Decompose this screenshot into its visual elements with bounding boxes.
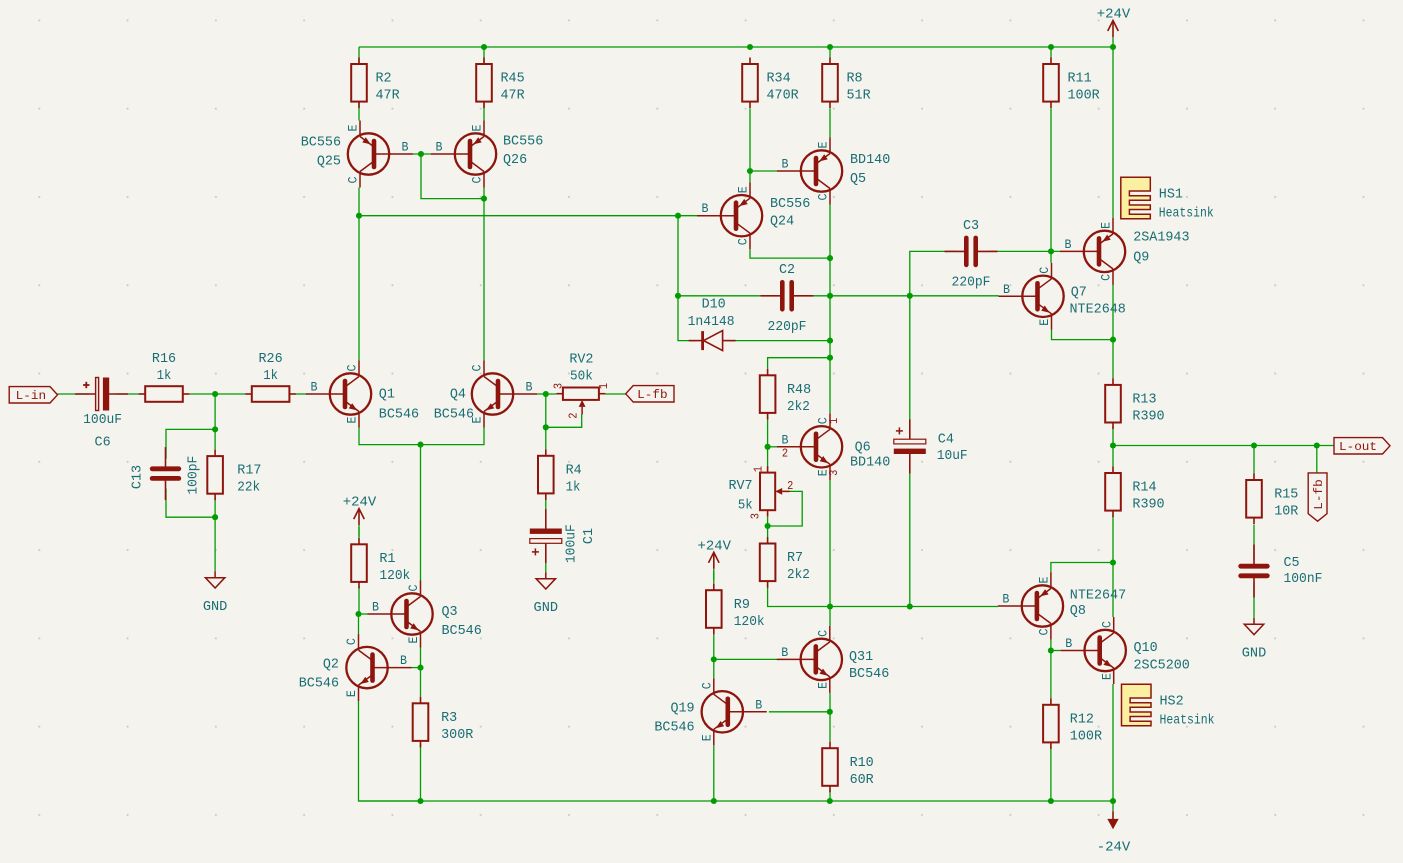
resistor R12 — [1043, 698, 1102, 749]
wire — [420, 445, 422, 581]
svg-text:BC546: BC546 — [434, 407, 474, 423]
transistor Q6 BD140 — [777, 413, 890, 480]
svg-text:B: B — [755, 698, 762, 712]
svg-text:-24V: -24V — [1097, 840, 1131, 856]
resistor R10 — [822, 742, 874, 793]
svg-text:220pF: 220pF — [952, 274, 991, 290]
svg-text:+24V: +24V — [1097, 7, 1131, 23]
svg-text:Q24: Q24 — [770, 214, 794, 230]
wire — [545, 549, 547, 572]
svg-text:B: B — [400, 654, 407, 668]
svg-text:B: B — [1002, 593, 1009, 607]
wire — [214, 498, 216, 571]
svg-text:R390: R390 — [1132, 409, 1164, 425]
wire — [1051, 650, 1061, 652]
wire — [768, 446, 778, 448]
svg-text:100R: 100R — [1070, 728, 1103, 744]
svg-text:C: C — [347, 177, 361, 184]
resistor R14 — [1105, 467, 1164, 518]
wire — [910, 295, 999, 297]
junction node Q8.C/Q10.B/R12 — [1048, 647, 1054, 653]
wire — [800, 295, 909, 297]
svg-text:22k: 22k — [237, 480, 260, 496]
resistor R15 — [1246, 474, 1299, 525]
transistor Q9 2SA1943 — [1060, 218, 1190, 285]
svg-text:L-fb: L-fb — [1312, 479, 1326, 509]
svg-text:Q4: Q4 — [450, 387, 466, 403]
wire — [1050, 651, 1052, 699]
svg-text:BC556: BC556 — [503, 134, 543, 150]
svg-text:Q1: Q1 — [379, 387, 395, 403]
svg-text:R13: R13 — [1132, 392, 1156, 408]
capacitor C1 — [530, 509, 597, 563]
wire — [829, 205, 831, 414]
junction node bottom rail / R3 — [417, 798, 423, 804]
svg-text:E: E — [1038, 577, 1052, 584]
wire — [713, 631, 715, 659]
junction node C3 right / Q9.B — [1048, 248, 1054, 254]
wire — [358, 586, 360, 614]
svg-text:3: 3 — [749, 513, 763, 519]
svg-text:R2: R2 — [376, 71, 392, 87]
svg-text:Q26: Q26 — [503, 152, 527, 168]
svg-text:BC546: BC546 — [299, 676, 339, 692]
svg-text:C: C — [737, 238, 751, 245]
transistor Q31 BC546 — [777, 626, 889, 693]
svg-text:2SC5200: 2SC5200 — [1134, 658, 1190, 674]
svg-text:120k: 120k — [379, 568, 410, 584]
junction node Q26.C — [481, 196, 487, 202]
wire — [605, 393, 625, 395]
wire — [750, 249, 830, 258]
svg-text:R48: R48 — [787, 382, 811, 398]
svg-text:BC546: BC546 — [379, 407, 419, 423]
svg-text:R45: R45 — [501, 71, 525, 87]
svg-text:100uF: 100uF — [563, 524, 579, 563]
junction node RV2 wiper — [543, 424, 549, 430]
svg-text:R9: R9 — [734, 597, 750, 613]
junction node top rail / R45 — [481, 44, 487, 50]
wire — [546, 414, 582, 427]
wire — [359, 428, 421, 445]
junction node Q5.B — [747, 168, 753, 174]
wire — [545, 394, 547, 449]
svg-text:120k: 120k — [734, 614, 765, 630]
svg-text:C: C — [816, 630, 830, 637]
svg-text:R17: R17 — [237, 463, 261, 479]
wire — [1112, 426, 1114, 466]
svg-text:E: E — [1100, 222, 1114, 229]
svg-text:B: B — [781, 646, 788, 660]
svg-text:3: 3 — [551, 383, 565, 389]
svg-text:C6: C6 — [95, 435, 111, 451]
svg-text:E: E — [471, 125, 485, 132]
svg-text:L-in: L-in — [16, 389, 46, 403]
svg-text:2: 2 — [787, 479, 793, 493]
junction node R48 tap — [827, 355, 833, 361]
wire — [189, 393, 246, 395]
junction node C3/C4/Q7.B — [907, 293, 913, 299]
junction node R1/Q3.B/Q2.C — [355, 611, 361, 617]
wire — [1253, 446, 1255, 474]
junction node R9/Q31.B/Q19.C — [711, 656, 717, 662]
wire — [749, 108, 751, 182]
svg-text:C: C — [407, 585, 421, 592]
svg-text:Q3: Q3 — [442, 604, 458, 620]
wire — [767, 517, 769, 537]
wire — [768, 358, 830, 369]
svg-text:R14: R14 — [1132, 480, 1156, 496]
wire — [1112, 684, 1114, 801]
transistor Q2 BC546 — [299, 634, 412, 701]
junction node D10 — [827, 338, 833, 344]
potentiometer RV2 — [551, 351, 611, 418]
svg-text:+24V: +24V — [343, 495, 377, 511]
wire — [829, 693, 831, 712]
resistor R8 — [822, 58, 871, 109]
junction node bottom rail / R10 — [827, 798, 833, 804]
heatsink HS1 — [1121, 177, 1214, 222]
svg-text:C2: C2 — [779, 262, 795, 278]
svg-text:C: C — [346, 365, 360, 372]
wire — [58, 393, 90, 395]
transistor Q8 NTE2647 — [998, 573, 1126, 640]
wire — [421, 428, 485, 445]
resistor R48 — [760, 369, 811, 420]
wire — [769, 711, 830, 713]
svg-text:BC556: BC556 — [301, 135, 341, 151]
svg-text:60R: 60R — [850, 772, 875, 788]
junction node Q24.C — [827, 255, 833, 261]
heatsink HS2 — [1122, 684, 1215, 729]
svg-text:B: B — [1003, 283, 1010, 297]
wire — [1050, 640, 1052, 651]
svg-text:Q5: Q5 — [850, 171, 866, 187]
svg-text:R1: R1 — [379, 551, 395, 567]
junction node top rail / R34 — [747, 44, 753, 50]
svg-text:E: E — [737, 186, 751, 193]
wire — [1112, 47, 1114, 218]
svg-text:1k: 1k — [263, 368, 278, 384]
svg-text:E: E — [345, 690, 359, 697]
wire — [358, 47, 360, 121]
ground — [534, 572, 559, 616]
junction node bottom rail / -24V — [1110, 798, 1116, 804]
wire — [412, 667, 421, 669]
wire — [1112, 516, 1114, 617]
wire — [359, 215, 678, 217]
wire — [358, 527, 360, 538]
svg-text:2k2: 2k2 — [787, 399, 810, 415]
transistor Q3 BC546 — [368, 581, 482, 648]
resistor R17 — [207, 450, 261, 501]
svg-text:RV7: RV7 — [728, 478, 752, 494]
svg-text:C: C — [700, 682, 714, 689]
wire — [296, 393, 307, 395]
svg-text:GND: GND — [534, 600, 559, 616]
svg-text:B: B — [311, 381, 318, 395]
wire — [116, 393, 139, 395]
svg-text:10uF: 10uF — [937, 448, 968, 464]
svg-text:GND: GND — [203, 599, 228, 615]
junction node L-fb tap — [1314, 442, 1320, 448]
svg-text:R10: R10 — [850, 755, 874, 771]
wire — [713, 571, 715, 584]
svg-text:Heatsink: Heatsink — [1160, 713, 1215, 729]
svg-text:BC546: BC546 — [849, 666, 889, 682]
svg-text:BD140: BD140 — [850, 455, 890, 471]
transistor Q7 NTE2648 — [999, 263, 1126, 330]
svg-text:Q19: Q19 — [670, 701, 694, 717]
svg-text:B: B — [1065, 637, 1072, 651]
resistor R3 — [413, 697, 474, 748]
svg-text:C: C — [1038, 629, 1052, 636]
svg-text:B: B — [436, 141, 443, 155]
wire — [1112, 285, 1114, 379]
svg-text:BC546: BC546 — [654, 720, 694, 736]
svg-text:C3: C3 — [963, 218, 979, 234]
capacitor C4 — [894, 419, 968, 473]
wire — [713, 745, 715, 801]
junction node Q8.E — [1110, 559, 1116, 565]
wire — [829, 790, 831, 801]
junction node bottom rail / Q19.E — [711, 798, 717, 804]
svg-text:R34: R34 — [767, 71, 791, 87]
wire — [358, 188, 360, 361]
junction node Q31.E/Q19.B/R10 — [827, 709, 833, 715]
svg-text:B: B — [372, 601, 379, 615]
svg-text:Q2: Q2 — [323, 657, 339, 673]
svg-text:1n4148: 1n4148 — [688, 314, 735, 330]
wire — [678, 216, 696, 341]
wire +24V top rail — [359, 46, 1113, 48]
capacitor C3 — [945, 218, 998, 291]
svg-text:NTE2648: NTE2648 — [1070, 302, 1126, 318]
svg-text:2k2: 2k2 — [787, 567, 810, 583]
resistor R13 — [1105, 378, 1164, 429]
junction node top rail / +24V — [1110, 44, 1116, 50]
svg-text:47R: 47R — [501, 88, 526, 104]
junction node Q4.B — [543, 391, 549, 397]
svg-text:E: E — [346, 417, 360, 424]
wire — [750, 170, 777, 172]
wire — [420, 648, 422, 668]
wire — [989, 250, 1060, 252]
resistor R1 — [351, 538, 410, 589]
svg-text:1k: 1k — [566, 479, 581, 495]
svg-text:R16: R16 — [152, 351, 176, 367]
svg-text:E: E — [816, 682, 830, 689]
ground — [203, 571, 228, 615]
svg-text:C: C — [1038, 267, 1052, 274]
junction node Q1.E/Q4.E — [417, 442, 423, 448]
transistor Q1 BC546 — [306, 361, 419, 428]
power +24V — [343, 495, 377, 537]
svg-text:1: 1 — [827, 418, 841, 424]
ground — [1242, 618, 1267, 662]
svg-text:Q8: Q8 — [1070, 603, 1086, 619]
svg-text:1: 1 — [752, 466, 766, 472]
wire — [910, 251, 957, 295]
transistor Q5 BD140 — [777, 138, 890, 205]
junction node R16/R26 — [212, 391, 218, 397]
capacitor C5 — [1241, 545, 1323, 598]
junction node output R13/R14 — [1110, 442, 1116, 448]
transistor Q25 BC556 — [301, 121, 413, 188]
svg-text:470R: 470R — [767, 88, 800, 104]
svg-text:Heatsink: Heatsink — [1159, 206, 1214, 222]
wire — [1050, 108, 1052, 262]
transistor Q26 BC556 — [431, 121, 543, 188]
junction node RV7 bottom — [765, 523, 771, 529]
svg-text:E: E — [347, 125, 361, 132]
svg-text:10R: 10R — [1274, 504, 1299, 520]
svg-text:C: C — [817, 194, 831, 201]
wire — [359, 613, 368, 615]
svg-text:R26: R26 — [259, 351, 283, 367]
junction node bottom rail / R12 — [1048, 798, 1054, 804]
resistor R7 — [760, 537, 810, 588]
wire — [537, 393, 556, 395]
svg-text:51R: 51R — [847, 88, 872, 104]
svg-text:220pF: 220pF — [768, 319, 807, 335]
transistor Q24 BC556 — [697, 182, 810, 249]
resistor R9 — [706, 584, 765, 635]
svg-text:GND: GND — [1242, 646, 1267, 662]
svg-text:C4: C4 — [938, 432, 954, 448]
junction node Q6.E/Q31.C — [827, 603, 833, 609]
svg-text:R11: R11 — [1068, 71, 1092, 87]
junction node Q25.C — [356, 213, 362, 219]
diode D10 — [688, 297, 736, 351]
wire — [359, 701, 421, 801]
svg-text:B: B — [1065, 238, 1072, 252]
wire — [678, 295, 773, 297]
svg-text:1k: 1k — [157, 368, 172, 384]
svg-text:100uF: 100uF — [83, 412, 122, 428]
svg-text:100pF: 100pF — [186, 456, 202, 495]
svg-text:B: B — [702, 202, 709, 216]
svg-text:Q7: Q7 — [1071, 285, 1087, 301]
junction node C4 bottom — [907, 603, 913, 609]
svg-text:100nF: 100nF — [1284, 571, 1323, 587]
potentiometer RV7 — [728, 466, 793, 519]
svg-text:R4: R4 — [566, 462, 582, 478]
svg-text:HS2: HS2 — [1160, 694, 1184, 710]
svg-text:Q25: Q25 — [317, 154, 341, 170]
svg-text:2: 2 — [782, 446, 788, 460]
wire — [483, 188, 485, 361]
svg-text:Q9: Q9 — [1133, 250, 1149, 266]
junction node Q25.B-Q26.B — [418, 151, 424, 157]
svg-text:L-out: L-out — [1339, 440, 1377, 454]
svg-text:B: B — [402, 141, 409, 155]
svg-text:RV2: RV2 — [569, 351, 593, 367]
wire — [768, 586, 998, 606]
svg-text:BC556: BC556 — [770, 196, 810, 212]
svg-text:R15: R15 — [1274, 487, 1298, 503]
wire — [1316, 446, 1318, 473]
svg-text:C: C — [345, 638, 359, 645]
wire — [829, 108, 831, 137]
wire — [729, 340, 830, 342]
transistor Q4 BC546 — [434, 361, 537, 428]
svg-text:5k: 5k — [738, 498, 753, 514]
wire — [420, 744, 422, 801]
wire — [1050, 747, 1052, 801]
svg-text:Q31: Q31 — [849, 649, 873, 665]
wire — [1052, 330, 1114, 340]
resistor R2 — [351, 58, 400, 109]
svg-text:B: B — [526, 381, 533, 395]
wire — [421, 154, 484, 199]
svg-text:2: 2 — [567, 413, 581, 419]
wire -24V bottom rail — [359, 800, 1114, 802]
svg-text:2SA1943: 2SA1943 — [1133, 230, 1189, 246]
transistor Q10 2SC5200 — [1061, 617, 1190, 684]
svg-text:E: E — [700, 734, 714, 741]
transistor Q19 BC546 — [654, 678, 766, 745]
svg-text:C: C — [1100, 274, 1114, 281]
svg-text:E: E — [407, 637, 421, 644]
power -24V — [1097, 801, 1131, 856]
svg-text:+24V: +24V — [698, 538, 732, 554]
svg-text:D10: D10 — [702, 297, 726, 313]
junction node C13 top — [212, 426, 218, 432]
wire — [829, 607, 831, 626]
global label L-out — [1334, 438, 1390, 455]
svg-text:47R: 47R — [376, 88, 401, 104]
wire — [214, 394, 216, 450]
svg-text:R390: R390 — [1132, 497, 1164, 513]
svg-text:C: C — [471, 365, 485, 372]
svg-text:C5: C5 — [1284, 555, 1300, 571]
wire — [909, 461, 911, 607]
junction node Q7.E / Q9.C — [1110, 337, 1116, 343]
svg-text:E: E — [1100, 673, 1114, 680]
junction node top rail / R11 — [1048, 44, 1054, 50]
power +24V — [698, 538, 732, 580]
wire — [545, 498, 547, 523]
wire — [1253, 582, 1255, 618]
junction node C2 right — [827, 293, 833, 299]
svg-text:B: B — [782, 158, 789, 172]
wire — [413, 153, 432, 155]
svg-text:C: C — [471, 177, 485, 184]
junction node C2 left — [675, 293, 681, 299]
junction node R15 tap — [1251, 442, 1257, 448]
junction node Q6.B — [765, 444, 771, 450]
resistor R4 — [538, 449, 582, 500]
wire — [1253, 525, 1255, 560]
svg-text:100R: 100R — [1068, 88, 1101, 104]
capacitor C6 — [75, 378, 128, 451]
wire — [909, 296, 911, 433]
wire — [829, 712, 831, 742]
wire — [166, 488, 215, 517]
wire — [829, 480, 831, 606]
wire — [483, 47, 485, 121]
wire — [166, 429, 215, 458]
wire — [713, 659, 715, 678]
svg-text:50k: 50k — [570, 369, 593, 385]
svg-text:C13: C13 — [130, 465, 146, 489]
wire — [420, 668, 422, 697]
wire — [1050, 47, 1052, 58]
wire — [829, 47, 831, 58]
global label L-fb — [1308, 473, 1327, 521]
wire — [1113, 445, 1334, 447]
